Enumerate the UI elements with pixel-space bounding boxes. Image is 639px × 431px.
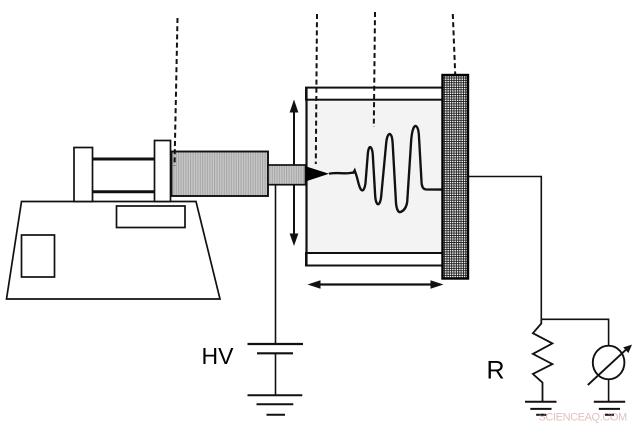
wire meter to ground bbox=[608, 379, 610, 401]
wire battery to ground bbox=[275, 353, 277, 395]
dashed guide line 3 (above chamber) bbox=[374, 12, 375, 127]
pump guide rail (bottom) bbox=[93, 190, 155, 193]
polymer jet (whipping instability curve) bbox=[329, 126, 444, 212]
wire junction to meter branch bbox=[541, 319, 608, 347]
meter (circle with diagonal arrow) bbox=[593, 346, 625, 380]
pump guide rail (top) bbox=[93, 158, 155, 161]
pump display (wide rectangle) bbox=[117, 206, 186, 228]
HV supply battery plate (long) bbox=[248, 343, 304, 345]
dashed guide line 1 (above syringe) bbox=[175, 18, 178, 166]
needle (black cone) bbox=[306, 166, 330, 181]
chamber bottom plate bbox=[306, 253, 443, 266]
horizontal double-headed arrow (working distance) bbox=[317, 283, 434, 285]
pump pusher block (left post) bbox=[74, 148, 93, 202]
chamber left wall bbox=[305, 88, 307, 266]
dashed guide line 4 (above collector) bbox=[453, 14, 455, 74]
chamber top plate bbox=[306, 88, 443, 100]
svg-text:R: R bbox=[487, 357, 505, 385]
pump end block (right post) bbox=[155, 141, 171, 202]
svg-text:SCIENCEAQ.COM: SCIENCEAQ.COM bbox=[539, 412, 628, 424]
wire collector to junction bbox=[468, 177, 541, 320]
HV wire from needle bbox=[275, 185, 277, 343]
vertical double-headed arrow (needle traverse) bbox=[293, 110, 295, 236]
dashed guide line 2 (above needle) bbox=[316, 14, 317, 164]
svg-text:HV: HV bbox=[202, 343, 235, 369]
HV supply battery plate (short) bbox=[257, 352, 293, 354]
syringe tip holder bbox=[268, 165, 306, 185]
chamber interior (electrospinning zone) bbox=[307, 99, 443, 253]
collector plate (mesh) bbox=[443, 75, 469, 279]
ground (meter) bbox=[594, 401, 625, 403]
syringe pump base (trapezoid housing) bbox=[7, 202, 221, 300]
pump panel button (left square) bbox=[22, 235, 55, 277]
syringe barrel bbox=[172, 152, 269, 197]
ground (resistor) bbox=[525, 401, 557, 403]
ground (HV supply) bbox=[248, 394, 303, 396]
resistor R (zigzag) bbox=[533, 319, 553, 401]
